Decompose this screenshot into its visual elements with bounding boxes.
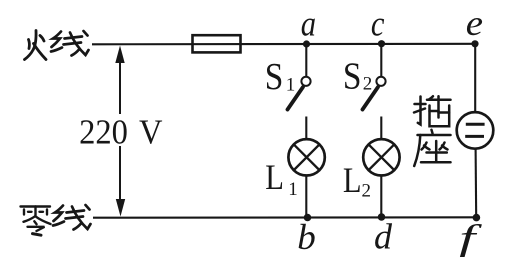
switch S1 — [288, 77, 311, 110]
svg-text:2: 2 — [363, 74, 373, 95]
label L2 — [343, 161, 371, 202]
label L1 — [265, 158, 297, 200]
svg-text:a: a — [301, 4, 316, 44]
svg-text:220: 220 — [79, 113, 128, 151]
svg-text:d: d — [374, 216, 393, 256]
wire lamp L1 to node b — [305, 176, 307, 218]
220 V measurement arrow — [78, 46, 164, 217]
svg-text:L: L — [343, 161, 362, 201]
label S1 — [265, 55, 296, 97]
node e junction dot — [471, 40, 478, 47]
wire node c to switch S2 — [380, 44, 382, 77]
node b junction dot — [304, 214, 312, 222]
svg-text:L: L — [265, 158, 284, 198]
wire bottom neutral wire — [93, 216, 477, 218]
label 220 V — [79, 113, 163, 151]
socket (outlet) symbol — [457, 112, 494, 149]
wire switch S2 to lamp L2 — [380, 117, 382, 140]
wire node e to socket — [474, 44, 476, 112]
node a junction dot — [303, 40, 310, 47]
svg-text:2: 2 — [362, 180, 372, 201]
svg-text:1: 1 — [286, 75, 296, 96]
lamp L2 — [363, 139, 399, 175]
lamp L1 — [288, 139, 324, 175]
label 火线 (live wire) — [25, 31, 47, 60]
svg-text:1: 1 — [288, 179, 298, 200]
wire top live wire — [92, 43, 475, 46]
svg-text:S: S — [343, 54, 362, 96]
svg-text:S: S — [265, 55, 284, 97]
wire switch S1 to lamp L1 — [305, 117, 307, 140]
label 插座 (socket) — [414, 96, 451, 126]
svg-text:c: c — [371, 4, 385, 44]
wire lamp L2 to node d — [380, 176, 382, 218]
fuse — [193, 35, 241, 52]
wire socket to node f — [475, 149, 478, 218]
label 零线 (neutral wire) — [21, 207, 51, 236]
node f junction dot — [473, 214, 481, 222]
node c junction dot — [378, 40, 385, 47]
svg-text:b: b — [297, 216, 316, 256]
node d junction dot — [378, 213, 386, 221]
wire node a to switch S1 — [305, 44, 307, 77]
svg-text:e: e — [466, 4, 483, 43]
svg-text:V: V — [139, 113, 163, 151]
switch S2 — [363, 77, 386, 110]
label S2 — [343, 54, 372, 96]
